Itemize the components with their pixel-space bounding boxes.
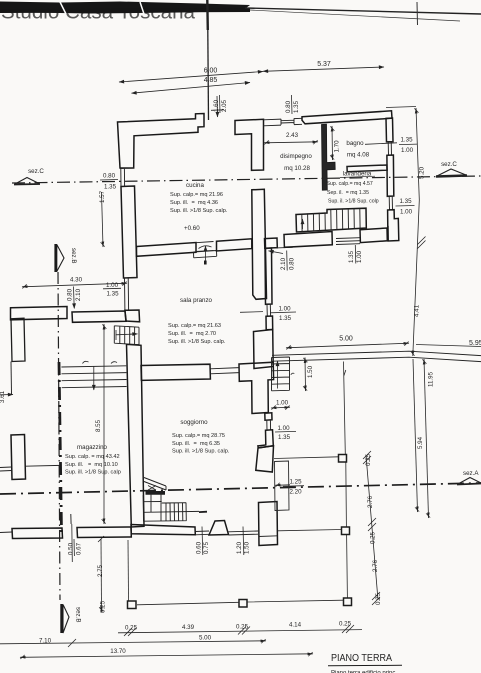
stairs small west arrow	[116, 330, 137, 340]
svg-text:1.35: 1.35	[293, 100, 300, 113]
door divider cucina/sala	[194, 242, 217, 258]
stairs lavanderia mini steps	[336, 238, 360, 245]
svg-text:1.00: 1.00	[400, 209, 413, 216]
gate arrow left	[0, 394, 13, 396]
svg-text:0.25: 0.25	[339, 621, 352, 628]
door jamb magazzino	[70, 514, 72, 524]
svg-text:Sup. calp.= mq 4.57: Sup. calp.= mq 4.57	[327, 181, 373, 187]
wall magazzino south east part	[77, 527, 131, 538]
section line A-A	[0, 483, 481, 494]
stairs magazzino arrow	[93, 366, 95, 390]
window sala east	[266, 304, 273, 316]
wall bagno east upper	[386, 118, 393, 142]
porch post south-west	[128, 601, 137, 609]
wall lavanderia east	[387, 155, 394, 196]
svg-text:4.41: 4.41	[414, 304, 421, 317]
svg-text:Sup. ill. = mq 4.36: Sup. ill. = mq 4.36	[170, 200, 218, 206]
svg-text:bagno: bagno	[346, 140, 364, 147]
svg-text:0.50: 0.50	[68, 542, 75, 555]
svg-text:13.70: 13.70	[110, 648, 126, 655]
svg-text:2.10: 2.10	[75, 288, 82, 301]
wall divider cucina/sala west part	[137, 243, 197, 257]
window corridor north	[281, 118, 294, 125]
section line B-B	[58, 272, 60, 600]
svg-text:Sep. il. = mq 1.35: Sep. il. = mq 1.35	[327, 190, 369, 196]
wall left building 2 west	[11, 435, 26, 480]
window cucina west	[120, 168, 135, 187]
wall east band below T	[265, 413, 272, 420]
svg-text:soggiorno: soggiorno	[180, 419, 208, 426]
svg-text:3.61: 3.61	[0, 390, 6, 403]
dimension 1.00 stairs east	[271, 406, 290, 409]
svg-text:Sup. ill. >1/8 Sup. calp.: Sup. ill. >1/8 Sup. calp.	[168, 339, 226, 345]
svg-text:sez.C: sez.C	[28, 168, 44, 175]
svg-text:1.35: 1.35	[106, 291, 119, 298]
svg-text:1.25: 1.25	[289, 479, 302, 486]
svg-text:Sup. ill. = mq 2.70: Sup. ill. = mq 2.70	[168, 331, 216, 337]
section marker sez.B bottom	[63, 605, 69, 634]
svg-text:2.75: 2.75	[97, 564, 104, 577]
svg-text:0.80: 0.80	[103, 173, 116, 180]
wall divider sala/soggiorno west part	[141, 364, 210, 380]
svg-text:6.00: 6.00	[204, 68, 218, 75]
svg-text:1.00: 1.00	[106, 282, 119, 289]
svg-text:5.37: 5.37	[317, 61, 331, 68]
window lavanderia east	[387, 196, 394, 210]
svg-text:1.35: 1.35	[348, 250, 355, 263]
wall soggiorno south	[131, 525, 195, 535]
section line C-C	[12, 176, 481, 183]
wall magazzino south west part	[12, 528, 63, 539]
wall cucina north-west corner	[118, 114, 205, 169]
bottom dimension line 3	[20, 654, 313, 658]
wall east parallelogram	[256, 446, 274, 472]
pier east sala	[254, 330, 274, 369]
svg-text:0.25: 0.25	[100, 600, 107, 613]
dimension 4.85 top	[132, 83, 251, 94]
svg-text:0.60: 0.60	[196, 541, 203, 554]
svg-text:1.35: 1.35	[279, 315, 292, 322]
svg-text:0.67: 0.67	[76, 542, 83, 555]
svg-text:1.00: 1.00	[401, 147, 414, 154]
window soggiorno east	[265, 420, 273, 430]
svg-text:Sup. calp.= mq 21.63: Sup. calp.= mq 21.63	[168, 323, 221, 329]
dimension 4.30 left	[22, 283, 127, 287]
wall disimpegno west / cucina east	[252, 189, 267, 299]
stairs interior landing bar	[146, 491, 166, 495]
svg-text:0.80: 0.80	[67, 288, 74, 301]
dimension 5.00 garden	[286, 343, 409, 348]
door divider sala/soggiorno	[210, 368, 239, 374]
svg-text:sez.B: sez.B	[75, 607, 82, 622]
stairs lavanderia arrow	[302, 219, 304, 229]
stairs lavanderia band	[296, 208, 366, 232]
svg-text:0.80: 0.80	[289, 257, 296, 270]
wall west sala pranzo upper	[121, 186, 137, 278]
svg-text:0.25: 0.25	[125, 625, 138, 632]
wall divider cucina/sala east part	[217, 239, 252, 251]
window bagno east	[387, 142, 394, 156]
dimension chain right porch 0.25/2.76	[366, 455, 378, 600]
svg-text:Sup. ill. = mq 10.10: Sup. ill. = mq 10.10	[65, 462, 118, 468]
svg-text:Sup. il. >1/8 Sup. colp: Sup. il. >1/8 Sup. colp	[328, 199, 379, 205]
wall bagno north	[302, 111, 392, 124]
svg-text:1.35: 1.35	[400, 137, 413, 144]
wall corridor north double line	[264, 118, 303, 126]
svg-text:1.35: 1.35	[399, 198, 412, 205]
porch post north-east	[339, 455, 347, 463]
svg-text:11.95: 11.95	[428, 371, 435, 387]
bottom dimension line 2	[0, 641, 266, 644]
svg-text:1.50: 1.50	[307, 365, 314, 378]
svg-text:disimpegno: disimpegno	[280, 153, 312, 160]
door frame east (thin rect)	[275, 461, 290, 511]
svg-text:4.39: 4.39	[182, 624, 195, 631]
section marker sez.B top	[57, 245, 64, 272]
svg-text:4.30: 4.30	[70, 277, 83, 284]
svg-text:Sup. calp.= mq 28.75: Sup. calp.= mq 28.75	[172, 433, 225, 439]
extension line bagno corner to R1	[386, 107, 416, 108]
window sill soggiorno south 2	[229, 531, 259, 535]
window sala west	[124, 278, 139, 311]
door ticks disimpegno north	[252, 170, 265, 190]
svg-text:1.50: 1.50	[244, 541, 251, 554]
fold line vertical x208	[206, 0, 209, 30]
stairs magazzino treads	[61, 366, 126, 388]
wall lavanderia east lower with corner step	[388, 210, 399, 241]
dimension 5.95 right clipped	[416, 345, 481, 347]
svg-text:Sup. ill. >1/8 Sup. calp: Sup. ill. >1/8 Sup. calp	[65, 470, 121, 476]
window sill soggiorno south 1	[195, 531, 209, 535]
wall partition bagno/lavanderia	[347, 165, 387, 172]
stairs interior soggiorno diagonals	[144, 478, 166, 491]
wall junction left building	[72, 311, 126, 322]
svg-text:Sup. ill. >1/8 Sup. calp.: Sup. ill. >1/8 Sup. calp.	[172, 449, 230, 455]
svg-text:Sup. ill. >1/8 Sup. calp.: Sup. ill. >1/8 Sup. calp.	[170, 208, 228, 214]
svg-text:1.00: 1.00	[277, 425, 290, 432]
svg-text:1.70: 1.70	[334, 140, 341, 153]
svg-text:magazzino: magazzino	[77, 444, 107, 451]
entrance threshold tick	[211, 109, 224, 112]
svg-text:0.80: 0.80	[285, 100, 292, 113]
pier south-east corner	[259, 502, 278, 546]
stairs lavanderia landing left	[284, 232, 332, 248]
porch east edge line	[344, 362, 348, 599]
wall east band below window	[258, 430, 273, 448]
svg-text:+0.60: +0.60	[184, 225, 200, 232]
svg-text:0.25: 0.25	[365, 453, 372, 466]
right extension line 5.20/4.41	[413, 108, 420, 356]
dimension 5.94 right	[413, 359, 418, 512]
dimension 5.37 top	[263, 67, 384, 71]
scan mark top right	[416, 2, 419, 25]
dimension 8.55 magazzino rotated	[103, 324, 105, 524]
svg-text:0.25: 0.25	[370, 531, 377, 544]
wall magazzino west dashed (coincides with section B)	[59, 362, 62, 532]
svg-text:5.20: 5.20	[419, 166, 426, 179]
porch south edge line	[137, 600, 344, 605]
svg-text:mq 10.28: mq 10.28	[284, 165, 310, 172]
stairs magazzino curl	[83, 361, 118, 363]
svg-text:7.10: 7.10	[39, 638, 52, 645]
wall T-pillar disimpegno	[235, 119, 264, 170]
wall west soggiorno/magazzino east	[127, 344, 145, 527]
scan top line right	[245, 8, 481, 14]
dimension 1.50 stairs east	[304, 358, 307, 392]
svg-text:PIANO TERRA: PIANO TERRA	[331, 652, 392, 664]
scan top bar	[0, 2, 250, 14]
porch post south-east	[344, 598, 352, 606]
dimension 2.75 rotated	[100, 539, 103, 612]
svg-text:5.95: 5.95	[469, 340, 481, 347]
porch post south-mid	[239, 600, 247, 608]
garden wall east double line	[272, 351, 481, 361]
stairs east arrow	[277, 361, 279, 389]
entrance door arrow	[216, 96, 219, 117]
porch line building to south-west post	[278, 530, 342, 531]
wall east band short	[266, 316, 273, 330]
wall east band sala upper	[265, 248, 272, 304]
svg-text:2.76: 2.76	[367, 495, 374, 508]
stairs east curl mark	[291, 373, 295, 375]
svg-text:2.20: 2.20	[289, 489, 302, 496]
svg-text:mq 4.08: mq 4.08	[347, 151, 370, 158]
bottom dimension line 1	[118, 630, 362, 633]
svg-text:0.75: 0.75	[203, 541, 210, 554]
column base trapezoid	[209, 521, 229, 536]
svg-text:Sup. calp.= mq 21.96: Sup. calp.= mq 21.96	[170, 192, 223, 198]
svg-text:0.25: 0.25	[375, 592, 382, 605]
svg-text:4.85: 4.85	[204, 77, 218, 84]
wall divider sala/soggiorno with T pier	[239, 362, 274, 413]
stairs lavanderia landing right	[360, 228, 387, 243]
svg-text:1.00: 1.00	[356, 250, 363, 263]
dimension 6.00 top	[119, 72, 263, 83]
svg-text:1.00: 1.00	[276, 400, 289, 407]
wall west below window	[125, 310, 140, 322]
svg-text:sala pranzo: sala pranzo	[180, 297, 213, 304]
svg-text:cucina: cucina	[186, 182, 204, 189]
svg-text:0.25: 0.25	[236, 624, 249, 631]
svg-text:4.14: 4.14	[289, 622, 302, 629]
svg-text:Sup. ill. = mq 6.35: Sup. ill. = mq 6.35	[172, 441, 220, 447]
stairs interior mid line	[143, 510, 199, 513]
svg-text:2.76: 2.76	[372, 559, 379, 572]
stairs east exterior	[272, 357, 290, 391]
stairs interior cross mark	[148, 486, 156, 491]
stairs small west	[114, 326, 139, 345]
stairs lavanderia treads	[302, 209, 360, 232]
wall arm disimpegno/sala east	[265, 238, 278, 248]
porch post east-mid	[342, 527, 350, 535]
svg-text:5.94: 5.94	[417, 436, 424, 449]
svg-text:5.00: 5.00	[339, 336, 353, 343]
wall left building 1 west	[11, 318, 25, 361]
svg-text:1.20: 1.20	[236, 541, 243, 554]
svg-text:sez.A: sez.A	[463, 470, 479, 477]
porch north edge line	[274, 457, 339, 459]
stairs interior soggiorno grid	[143, 494, 186, 522]
dimension 11.95 right	[424, 359, 429, 518]
svg-text:8.55: 8.55	[95, 419, 102, 432]
wall left building 1 top	[11, 307, 68, 320]
wall partition bagno west	[322, 124, 336, 190]
svg-text:2.10: 2.10	[280, 257, 287, 270]
svg-text:Sup. calp. = mq 43.42: Sup. calp. = mq 43.42	[65, 454, 120, 460]
svg-text:1.35: 1.35	[278, 434, 291, 441]
svg-text:1.00: 1.00	[278, 306, 291, 313]
svg-text:sez.B: sez.B	[70, 248, 77, 263]
svg-text:1.35: 1.35	[104, 184, 117, 191]
wall left building 2 lines off edge	[0, 465, 60, 532]
svg-text:5.00: 5.00	[199, 635, 212, 642]
svg-text:sez.C: sez.C	[441, 161, 457, 168]
svg-text:2.43: 2.43	[286, 132, 299, 139]
svg-text:1.57: 1.57	[99, 190, 106, 203]
